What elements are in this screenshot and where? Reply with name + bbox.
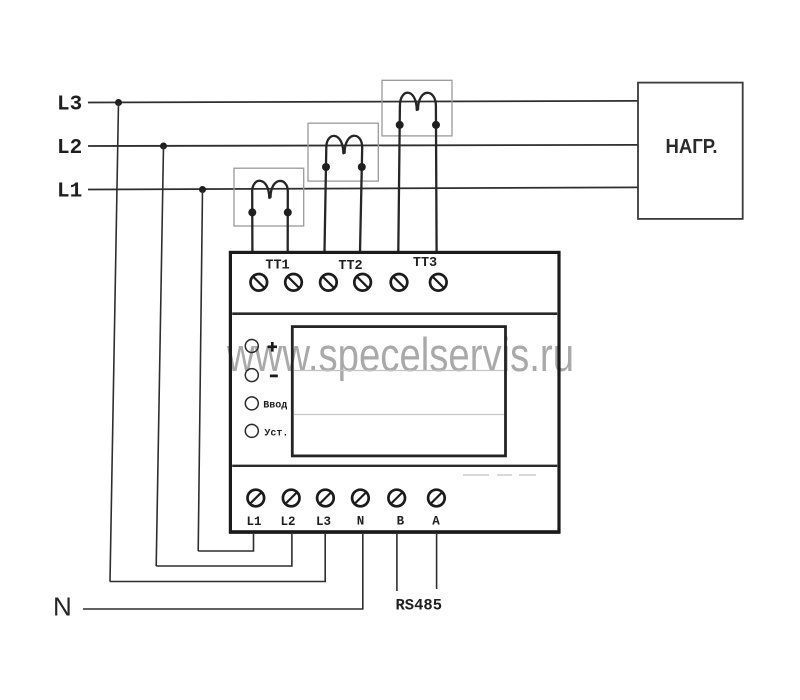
svg-text:ТТ3: ТТ3 — [413, 256, 437, 271]
button minus — [245, 369, 258, 382]
terminal screw bottom L3 — [317, 490, 334, 507]
terminal screw top 1 — [250, 274, 267, 291]
wire L2 terminal lead — [156, 534, 292, 566]
wire L1 terminal lead — [198, 534, 253, 551]
svg-text:L3: L3 — [316, 515, 331, 529]
terminal screw bottom N — [352, 490, 369, 507]
display line 1 — [294, 370, 504, 372]
button Уст — [245, 424, 258, 437]
TT3 terminal dot S2 — [432, 121, 440, 129]
label minus — [270, 374, 278, 377]
terminal screw bottom L1 — [248, 490, 265, 507]
node L3 tap junction — [115, 99, 122, 106]
TT2 terminal dot S1 — [322, 163, 330, 171]
meter body bottom edge — [229, 532, 561, 534]
button plus — [245, 340, 258, 353]
svg-text:ТТ1: ТТ1 — [265, 258, 289, 273]
svg-text:ТТ2: ТТ2 — [338, 259, 362, 274]
meter top divider — [232, 312, 557, 315]
node L1 tap junction — [199, 186, 206, 193]
current transformer TT3 frame — [382, 80, 452, 136]
display window — [292, 327, 505, 456]
meter bottom divider — [232, 465, 557, 467]
button Ввод — [245, 397, 258, 410]
TT1 terminal dot S2 — [284, 208, 292, 216]
wire L2 phase line — [88, 145, 638, 146]
current transformer TT2 frame — [308, 123, 378, 181]
current transformer TT3 coil — [398, 93, 436, 252]
wire N terminal lead — [83, 534, 363, 609]
wire L3 terminal lead — [110, 534, 325, 582]
current transformer TT2 coil — [325, 136, 363, 252]
svg-text:N: N — [53, 592, 72, 622]
svg-text:Ввод: Ввод — [263, 400, 287, 411]
watermark remnant dashes — [463, 474, 536, 476]
svg-text:L3: L3 — [57, 94, 82, 117]
wire L1 phase line — [88, 187, 638, 189]
svg-text:B: B — [397, 515, 405, 529]
svg-text:L1: L1 — [57, 181, 82, 204]
svg-text:L1: L1 — [246, 515, 261, 529]
current transformer TT1 coil — [252, 181, 288, 252]
svg-text:N: N — [357, 515, 365, 529]
wire L3 tap vertical — [110, 103, 119, 582]
terminal screw bottom B — [388, 490, 405, 507]
svg-text:Уст.: Уст. — [264, 429, 288, 440]
current transformer TT1 frame — [234, 168, 304, 226]
wire L3 phase line — [88, 101, 638, 103]
terminal screw top 3 — [320, 274, 337, 291]
TT1 terminal dot S1 — [248, 208, 256, 216]
meter body — [230, 252, 559, 531]
terminal screw bottom L2 — [283, 490, 300, 507]
TT3 terminal dot S1 — [396, 121, 404, 129]
wire A terminal lead — [436, 534, 438, 589]
label + — [268, 342, 277, 352]
terminal screw top 2 — [285, 274, 302, 291]
wire L2 tap vertical — [156, 146, 163, 566]
terminal screw top 4 — [354, 274, 371, 291]
terminal screw bottom A — [428, 490, 445, 507]
wire L1 tap vertical — [198, 190, 202, 552]
terminal screw top 6 — [430, 274, 447, 291]
terminal screw top 5 — [391, 274, 408, 291]
TT2 terminal dot S2 — [358, 163, 366, 171]
load box НАГР — [638, 83, 743, 219]
svg-text:L2: L2 — [280, 515, 295, 529]
svg-text:RS485: RS485 — [396, 597, 443, 615]
svg-text:www.specelservis.ru: www.specelservis.ru — [226, 328, 574, 381]
node L2 tap junction — [160, 143, 167, 150]
wire B terminal lead — [396, 534, 398, 591]
svg-text:НАГР.: НАГР. — [666, 135, 718, 158]
display line 2 — [294, 414, 504, 416]
svg-text:A: A — [432, 515, 440, 529]
svg-text:L2: L2 — [57, 137, 82, 160]
